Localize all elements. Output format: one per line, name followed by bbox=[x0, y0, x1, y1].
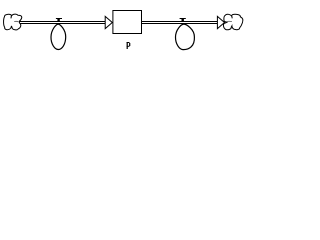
cloud inner curl right bbox=[226, 20, 232, 22]
cloud (source, left) bbox=[4, 14, 22, 30]
valve R1 handle (T) bbox=[56, 18, 62, 21]
wire: flow pipe 1 (cloud to stock), double line bbox=[20, 22, 106, 24]
background bbox=[0, 0, 245, 55]
rate ellipse R2 bbox=[175, 24, 194, 50]
arrowhead into sink cloud bbox=[217, 16, 224, 28]
valve R2 handle (T) bbox=[180, 18, 186, 21]
arrowhead into stock bbox=[105, 16, 112, 28]
wire: flow pipe 2 (stock to sink) bbox=[142, 22, 218, 24]
cloud (sink, right): mirror of left cloud bbox=[223, 14, 242, 30]
rate ellipse R1 bbox=[51, 24, 66, 49]
label P bbox=[127, 42, 131, 49]
stock box P bbox=[113, 11, 142, 34]
cloud inner curl bbox=[14, 20, 19, 22]
